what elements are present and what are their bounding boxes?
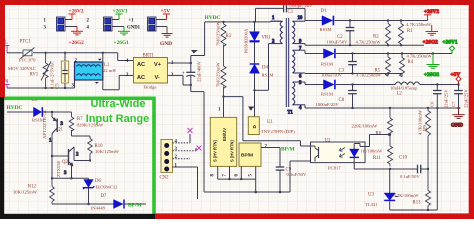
capacitor C8 bbox=[316, 85, 357, 109]
ground +26G2 (right) bbox=[423, 25, 439, 46]
connector CN5 bbox=[127, 17, 167, 31]
svg-text:Q2: Q2 bbox=[62, 160, 68, 165]
wire CN2 pins bbox=[173, 134, 198, 199]
resistor R3 bbox=[216, 21, 232, 66]
wire bottom feedback rail bbox=[390, 108, 438, 211]
svg-text:100uF/50V: 100uF/50V bbox=[327, 40, 349, 45]
svg-text:TL431: TL431 bbox=[365, 202, 378, 207]
wire bridge V- to primary return bbox=[168, 75, 205, 191]
wire HVDC rail bbox=[192, 21, 283, 53]
diode D7 bbox=[90, 194, 146, 210]
svg-text:R3: R3 bbox=[226, 34, 232, 39]
svg-text:BP/M: BP/M bbox=[241, 153, 253, 159]
svg-text:1N4448: 1N4448 bbox=[90, 205, 106, 210]
inductor L1 (common-mode choke) bbox=[72, 59, 117, 89]
svg-text:D7: D7 bbox=[101, 194, 107, 199]
svg-text:7M6/250mW: 7M6/250mW bbox=[216, 21, 221, 46]
svg-text:S (HV RTN): S (HV RTN) bbox=[230, 140, 235, 162]
optocoupler U2 PC817 bbox=[311, 139, 366, 171]
capacitor C10 bbox=[399, 156, 428, 179]
svg-text:EN/UV: EN/UV bbox=[222, 128, 227, 141]
svg-text:10: 10 bbox=[298, 16, 303, 21]
annotation black frame (bottom-left) bbox=[0, 97, 155, 219]
svg-text:C7: C7 bbox=[451, 101, 456, 107]
ground +26G1 (top) bbox=[114, 27, 131, 47]
node HVDC bbox=[205, 15, 221, 21]
svg-text:HVDC: HVDC bbox=[205, 15, 221, 21]
svg-text:Bridge: Bridge bbox=[144, 85, 157, 90]
resistor R2 bbox=[356, 21, 391, 46]
svg-text:4.7K/250mW: 4.7K/250mW bbox=[406, 22, 432, 27]
svg-text:D6: D6 bbox=[95, 179, 101, 184]
node L (line input port) bbox=[4, 40, 10, 53]
svg-text:RS1M: RS1M bbox=[321, 62, 333, 67]
svg-text:PC817: PC817 bbox=[328, 166, 341, 171]
svg-text:22uF/25V: 22uF/25V bbox=[444, 89, 449, 108]
ground +26G2 (top-left) bbox=[69, 27, 85, 47]
wire +26V2 return rail bbox=[305, 44, 424, 46]
wire secondary pin stubs bbox=[300, 21, 305, 109]
capacitor C4 bbox=[182, 60, 202, 85]
svg-text:22uF/25V: 22uF/25V bbox=[464, 89, 469, 108]
resistor R5 bbox=[356, 54, 391, 78]
bridge rectifier BRT1 bbox=[126, 54, 174, 90]
shunt reference U3 TL431 bbox=[365, 169, 399, 210]
resistor R7 bbox=[69, 112, 104, 136]
svg-text:R1: R1 bbox=[407, 29, 413, 34]
resistor R8 bbox=[352, 108, 393, 137]
svg-text:S (HV RTN): S (HV RTN) bbox=[213, 140, 218, 162]
wire drain node bbox=[249, 44, 269, 110]
capacitor C9 bbox=[276, 148, 307, 193]
svg-text:+26V2: +26V2 bbox=[424, 9, 439, 15]
transistor Q1 bbox=[42, 109, 72, 156]
wire R7 to R10 node bbox=[72, 130, 91, 139]
svg-text:+1: +1 bbox=[129, 19, 135, 24]
resistor R11 bbox=[361, 135, 393, 167]
node BP/M (at U1) bbox=[261, 147, 294, 153]
wire opto emitter bbox=[290, 161, 311, 192]
TVS diode VR1 bbox=[244, 22, 272, 64]
wire source return rail bbox=[204, 191, 290, 194]
svg-text:R11: R11 bbox=[373, 156, 381, 161]
svg-text:V-: V- bbox=[155, 75, 160, 81]
svg-text:U3: U3 bbox=[368, 193, 374, 198]
wire HVDC to D5 bbox=[7, 111, 34, 113]
svg-text:RS1M: RS1M bbox=[262, 73, 274, 78]
annotation green box Ultra-Wide Input Range bbox=[1, 98, 154, 224]
svg-text:ZTX558: ZTX558 bbox=[56, 160, 61, 177]
svg-text:CN2: CN2 bbox=[160, 176, 170, 181]
no-ERC marker (magenta cross) bbox=[197, 146, 202, 151]
svg-text:+26G1: +26G1 bbox=[424, 72, 440, 78]
diode D1 bbox=[320, 9, 334, 32]
svg-text:T1: T1 bbox=[288, 111, 294, 116]
svg-text:+26G1: +26G1 bbox=[114, 40, 130, 46]
svg-text:GND: GND bbox=[451, 123, 463, 129]
svg-text:7M6/250mW: 7M6/250mW bbox=[216, 62, 221, 87]
diode D5 bbox=[32, 98, 45, 123]
svg-text:22 mH: 22 mH bbox=[103, 68, 116, 73]
thermistor PTC1 bbox=[19, 40, 36, 63]
svg-text:RS1M: RS1M bbox=[321, 91, 333, 96]
svg-text:4.7K/250mW: 4.7K/250mW bbox=[407, 54, 433, 59]
svg-text:AC: AC bbox=[137, 62, 145, 68]
svg-text:10uH/0.85amp: 10uH/0.85amp bbox=[390, 85, 418, 90]
svg-text:C6: C6 bbox=[430, 101, 435, 107]
svg-text:VR1: VR1 bbox=[262, 36, 272, 41]
svg-text:+26G2: +26G2 bbox=[423, 40, 439, 46]
node HVDC (left) bbox=[7, 105, 23, 111]
svg-text:1000uF/25V: 1000uF/25V bbox=[316, 102, 340, 107]
svg-text:R7: R7 bbox=[77, 117, 83, 122]
node BP/M (left) bbox=[128, 203, 141, 209]
connector CN3 bbox=[44, 17, 78, 31]
svg-text:C1: C1 bbox=[288, 10, 294, 15]
svg-text:R13: R13 bbox=[413, 200, 422, 205]
svg-text:APT22ZTR-G1: APT22ZTR-G1 bbox=[42, 109, 47, 139]
svg-text:GND1: GND1 bbox=[127, 26, 141, 31]
svg-text:TNY278PN (DIP): TNY278PN (DIP) bbox=[261, 129, 295, 134]
wire +26V2 rail bbox=[305, 19, 428, 21]
svg-text:D: D bbox=[252, 125, 258, 129]
transistor Q2 bbox=[52, 147, 91, 178]
connector CN4 bbox=[87, 17, 125, 31]
wire U1 source pins bus bbox=[218, 166, 256, 192]
zener diode D6 bbox=[83, 178, 118, 204]
wire bridge V+ to HVDC rail bbox=[168, 22, 205, 64]
svg-text:BP/M: BP/M bbox=[281, 147, 294, 153]
connector CN2 bbox=[160, 139, 178, 180]
svg-text:Input Range: Input Range bbox=[86, 113, 150, 125]
svg-text:C5: C5 bbox=[56, 83, 61, 89]
svg-text:+: + bbox=[182, 72, 185, 77]
power port +26V2 (right) bbox=[424, 9, 439, 21]
wire L input bbox=[7, 53, 134, 61]
capacitor C5 bbox=[50, 53, 69, 89]
ground GND (right) bbox=[451, 108, 465, 129]
wire Q1 collector column bbox=[51, 155, 89, 180]
svg-text:4.7K/250mW: 4.7K/250mW bbox=[356, 40, 382, 45]
svg-text:R4: R4 bbox=[408, 60, 414, 65]
svg-text:HVDC: HVDC bbox=[7, 105, 23, 111]
power port +26V1 (right) bbox=[443, 40, 458, 54]
svg-text:RV1: RV1 bbox=[30, 73, 39, 78]
resistor R13 bbox=[394, 169, 431, 210]
svg-text:RS1M: RS1M bbox=[320, 27, 332, 32]
wire N input bbox=[7, 52, 104, 90]
wire +26V1 return rail bbox=[305, 72, 402, 74]
power port +5V (right) bbox=[451, 72, 462, 85]
resistor R6 (second 7M6 sense resistor) bbox=[216, 62, 227, 97]
ground GND (top) bbox=[160, 27, 173, 48]
resistor R1 bbox=[399, 21, 432, 46]
svg-text:10K/125mW: 10K/125mW bbox=[95, 149, 120, 154]
power port +5V (top) bbox=[161, 9, 171, 20]
svg-text:PTC 870: PTC 870 bbox=[19, 58, 36, 63]
svg-text:Ultra-Wide: Ultra-Wide bbox=[91, 98, 146, 110]
svg-text:R9: R9 bbox=[424, 125, 429, 131]
resistor R4 bbox=[400, 54, 433, 77]
capacitor C3 bbox=[321, 54, 357, 78]
svg-text:+26V1: +26V1 bbox=[443, 40, 458, 46]
svg-text:+26G2: +26G2 bbox=[69, 40, 85, 46]
capacitor C7 bbox=[451, 83, 469, 108]
wire EN/UV node bbox=[222, 95, 310, 146]
svg-text:30K/125mW: 30K/125mW bbox=[13, 189, 38, 194]
svg-text:BP/M: BP/M bbox=[128, 203, 141, 209]
capacitor C6 bbox=[430, 85, 449, 109]
varistor RV1 bbox=[8, 53, 51, 88]
svg-text:V+: V+ bbox=[154, 62, 162, 68]
inductor L2 bbox=[390, 82, 420, 96]
wire secondary ground rail bbox=[305, 107, 461, 109]
capacitor C2 bbox=[327, 21, 355, 46]
resistor R9 bbox=[418, 108, 431, 169]
resistor R10 bbox=[88, 139, 120, 161]
wire +5V rail bbox=[305, 83, 459, 85]
node N (neutral input port) bbox=[4, 79, 10, 88]
svg-text:0.1uF/50V: 0.1uF/50V bbox=[400, 174, 420, 179]
wire opto LED anode bbox=[365, 133, 391, 146]
svg-text:C8: C8 bbox=[339, 98, 345, 103]
wire D5 to node A bbox=[42, 111, 71, 113]
diode D2 bbox=[321, 49, 335, 67]
wire L1 output to bridge bbox=[103, 53, 134, 90]
svg-text:D1: D1 bbox=[321, 9, 327, 14]
svg-text:0.1uF-275VAC: 0.1uF-275VAC bbox=[50, 61, 55, 89]
svg-text:4.7K/100mW: 4.7K/100mW bbox=[418, 109, 423, 135]
IC U1 TNY278PN bbox=[210, 108, 295, 177]
wire feedback node bbox=[354, 157, 429, 170]
capacitor C1 (snubber) bbox=[256, 3, 314, 22]
power port +26V2 (top-left) bbox=[69, 9, 84, 20]
svg-text:D4: D4 bbox=[262, 66, 268, 71]
ground +26G1 (right) bbox=[424, 54, 440, 78]
svg-text:1K/100mW: 1K/100mW bbox=[361, 148, 383, 153]
svg-text:22uF/400V: 22uF/400V bbox=[197, 60, 202, 82]
wire bottom BP/M row bbox=[52, 203, 114, 205]
svg-text:220E/100mW: 220E/100mW bbox=[352, 124, 378, 129]
transformer T1 bbox=[269, 16, 306, 116]
no-ERC marker (magenta cross) bbox=[188, 128, 193, 133]
svg-text:4.7K/100mW: 4.7K/100mW bbox=[394, 193, 420, 198]
resistor R12 bbox=[13, 178, 54, 204]
svg-text:C10: C10 bbox=[399, 156, 408, 161]
diode D3 bbox=[321, 80, 335, 97]
svg-text:GND: GND bbox=[160, 41, 172, 47]
svg-text:BZX84C12: BZX84C12 bbox=[96, 185, 118, 190]
wire +26V1 rail bbox=[305, 52, 452, 54]
svg-text:U1: U1 bbox=[267, 120, 273, 125]
svg-text:P6SMB200A: P6SMB200A bbox=[244, 28, 249, 53]
svg-text:PTC1: PTC1 bbox=[20, 40, 32, 45]
svg-text:MOV 320VAC: MOV 320VAC bbox=[8, 66, 36, 71]
svg-text:L2: L2 bbox=[397, 91, 403, 96]
power port +26V1 (top) bbox=[113, 9, 128, 20]
diode D4 (clamp blocking diode RS1M) bbox=[250, 64, 274, 117]
svg-text:AC: AC bbox=[137, 75, 145, 81]
svg-text:Q1: Q1 bbox=[57, 128, 63, 133]
